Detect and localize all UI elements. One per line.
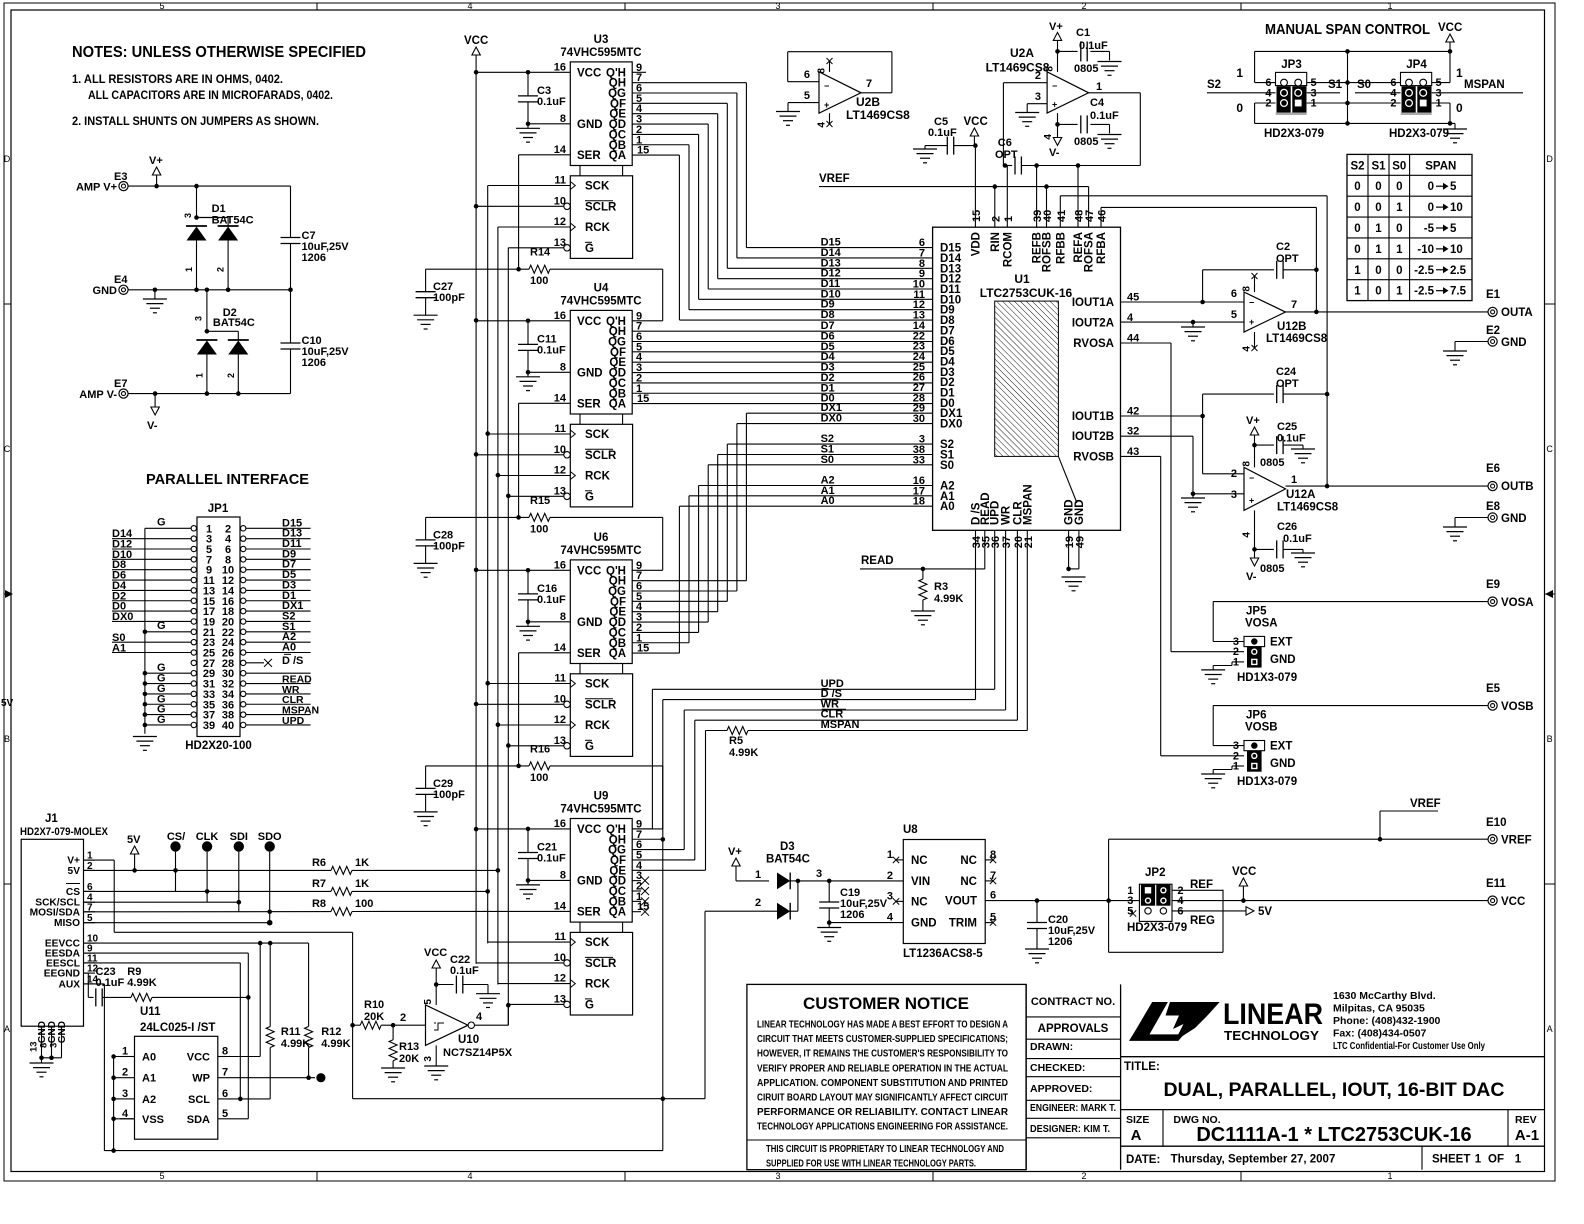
wire READ net — [860, 530, 985, 571]
svg-text:4.99K: 4.99K — [729, 747, 758, 759]
svg-text:0: 0 — [1456, 101, 1463, 115]
svg-text:VCC: VCC — [577, 565, 601, 577]
ground at C5 — [913, 149, 937, 163]
wire JP1 D3 — [246, 579, 311, 591]
svg-text:HD2X20-100: HD2X20-100 — [185, 740, 251, 752]
svg-text:V+: V+ — [149, 155, 163, 167]
svg-text:VCC: VCC — [577, 67, 601, 79]
svg-text:DATE:: DATE: — [1126, 1154, 1160, 1166]
svg-text:SDI: SDI — [230, 831, 248, 843]
svg-text:READ: READ — [861, 555, 894, 567]
wire U3 RCK — [498, 226, 570, 228]
svg-text:G: G — [585, 741, 594, 753]
svg-text:E1: E1 — [1486, 289, 1501, 301]
svg-text:U2B: U2B — [856, 95, 880, 109]
capacitor C4 0.1uF — [1058, 97, 1120, 148]
svg-text:5: 5 — [1231, 309, 1237, 321]
svg-text:U12B: U12B — [1277, 321, 1306, 333]
svg-text:R14: R14 — [530, 247, 551, 259]
svg-text:16: 16 — [554, 310, 566, 322]
ground at U10 — [424, 1066, 448, 1080]
svg-text:4.99K: 4.99K — [127, 977, 156, 989]
svg-text:EEGND: EEGND — [44, 969, 80, 980]
diode D2 BAT54C — [194, 288, 255, 394]
svg-text:THIS CIRCUIT IS PROPRIETARY TO: THIS CIRCUIT IS PROPRIETARY TO LINEAR TE… — [766, 1144, 1004, 1155]
wire U3 SCK — [488, 185, 571, 187]
svg-text:LT1469CS8: LT1469CS8 — [1277, 502, 1339, 514]
wire JP3 pin6 bracket — [1236, 51, 1275, 82]
svg-text:OUTA: OUTA — [1501, 307, 1533, 319]
svg-text:WP: WP — [192, 1073, 210, 1085]
svg-text:5: 5 — [159, 1, 164, 11]
svg-text:0: 0 — [1396, 223, 1402, 235]
resistor R7 1K — [312, 878, 490, 895]
svg-text:SCL: SCL — [188, 1094, 210, 1106]
wire U4 QB to D1 — [632, 382, 932, 394]
svg-text:8: 8 — [560, 869, 566, 881]
svg-text:SCK: SCK — [585, 429, 610, 441]
label REF — [1190, 879, 1213, 891]
svg-text:WR: WR — [1001, 505, 1013, 525]
svg-text:C4: C4 — [1090, 97, 1105, 109]
svg-text:OPT: OPT — [1276, 378, 1299, 390]
wire JP1 D1 — [246, 590, 311, 602]
connector JP1 HD2X20-100 — [191, 503, 246, 737]
svg-text:DC1111A-1 * LTC2753CUK-16: DC1111A-1 * LTC2753CUK-16 — [1196, 1124, 1471, 1146]
wire JP1 D0 — [112, 601, 191, 613]
svg-text:4: 4 — [817, 122, 828, 128]
wire JP1 D5 — [246, 569, 311, 581]
svg-text:J1: J1 — [45, 813, 58, 825]
svg-text:QA: QA — [609, 907, 626, 919]
svg-text:12: 12 — [554, 216, 566, 228]
svg-text:C: C — [1546, 444, 1553, 454]
wire U4 G — [508, 495, 564, 497]
svg-text:AMP V-: AMP V- — [79, 389, 117, 401]
svg-text:VCC: VCC — [1438, 22, 1462, 34]
wire JP1 G row33 — [145, 683, 191, 695]
svg-text:V+: V+ — [1246, 415, 1260, 427]
ground at R13 — [381, 1068, 405, 1082]
svg-text:MSPAN: MSPAN — [1464, 79, 1505, 91]
wire U6 QF to S2 — [632, 433, 932, 601]
svg-text:GND: GND — [1501, 337, 1527, 349]
svg-text:1206: 1206 — [840, 909, 864, 921]
capacitor C6 OPT — [995, 137, 1140, 175]
wire U6 QA to A0 — [632, 495, 932, 653]
wire JP1 G row31 — [145, 673, 191, 685]
svg-text:LINEAR: LINEAR — [1223, 998, 1323, 1031]
svg-text:A2: A2 — [142, 1094, 156, 1106]
capacitor C29 100pF — [416, 766, 465, 812]
svg-text:JP6: JP6 — [1246, 710, 1266, 722]
terminal E8 GND — [1455, 501, 1527, 525]
svg-text:0: 0 — [1236, 101, 1243, 115]
svg-text:0.1uF: 0.1uF — [537, 96, 566, 108]
svg-text:CIRCUIT THAT MEETS CUSTOMER-SU: CIRCUIT THAT MEETS CUSTOMER-SUPPLIED SPE… — [757, 1034, 1008, 1045]
svg-text:0805: 0805 — [1260, 457, 1284, 469]
wire RCK bus vertical — [496, 227, 501, 985]
svg-text:−: − — [1249, 298, 1254, 308]
wire ROFSB — [1046, 187, 1048, 228]
label REG — [1190, 915, 1215, 927]
svg-text:7: 7 — [990, 870, 996, 882]
svg-text:R16: R16 — [530, 743, 550, 755]
wire U10 Vcc pin5 — [423, 985, 436, 1006]
svg-text:IOUT2B: IOUT2B — [1072, 431, 1114, 443]
svg-text:CHECKED:: CHECKED: — [1030, 1062, 1085, 1074]
svg-text:4: 4 — [467, 1171, 472, 1181]
wire JP1 row40 — [246, 724, 311, 726]
ground at U6 — [516, 622, 540, 640]
ground at span control — [1443, 123, 1467, 142]
svg-text:0: 0 — [1354, 181, 1360, 193]
svg-text:3: 3 — [183, 213, 193, 218]
svg-text:JP4: JP4 — [1406, 59, 1427, 71]
svg-text:3: 3 — [887, 890, 893, 902]
svg-text:14: 14 — [554, 144, 567, 156]
svg-text:HOWEVER, IT REMAINS THE CUSTOM: HOWEVER, IT REMAINS THE CUSTOMER'S RESPO… — [757, 1049, 1008, 1060]
svg-text:−: − — [1052, 81, 1057, 91]
svg-text:100pF: 100pF — [433, 540, 465, 552]
svg-text:JP1: JP1 — [208, 503, 229, 515]
svg-text:VOSA: VOSA — [1501, 597, 1534, 609]
svg-text:+: + — [1052, 100, 1057, 110]
wire REFA — [1077, 166, 1079, 228]
svg-text:RFBA: RFBA — [1096, 232, 1108, 264]
svg-text:SCLR: SCLR — [585, 201, 617, 213]
svg-text:U3: U3 — [594, 34, 609, 46]
svg-text:5V: 5V — [1, 698, 14, 709]
svg-text:39: 39 — [203, 720, 215, 732]
wire J1 V+ to D3 — [84, 860, 706, 1101]
svg-text:SER: SER — [577, 150, 601, 162]
wire C19 to U8 GND — [829, 922, 903, 924]
svg-text:HD2X7-079-MOLEX: HD2X7-079-MOLEX — [20, 826, 109, 838]
svg-text:5: 5 — [804, 90, 810, 102]
svg-text:LINEAR TECHNOLOGY HAS MADE A B: LINEAR TECHNOLOGY HAS MADE A BEST EFFORT… — [757, 1020, 1008, 1031]
wire U4 QA to D0 — [632, 393, 932, 405]
wire IOUT2A to U12B +in — [1121, 320, 1245, 325]
svg-text:0.1uF: 0.1uF — [96, 977, 125, 989]
svg-text:SCLR: SCLR — [585, 958, 617, 970]
wire SER link — [516, 155, 570, 272]
company address — [1333, 990, 1485, 1052]
svg-text:-2.5: -2.5 — [1414, 265, 1434, 277]
terminal E6 OUTB — [1486, 463, 1534, 493]
svg-text:10: 10 — [1450, 244, 1463, 256]
svg-text:A0: A0 — [282, 642, 296, 654]
wire U6 GND — [528, 621, 570, 623]
svg-text:1K: 1K — [355, 857, 369, 869]
ground at R3 — [911, 611, 935, 625]
jumper JP2 HD2X3-079 — [1127, 867, 1187, 934]
power flag VCC at VDD — [964, 116, 988, 146]
no-connect U9 unused outputs — [632, 877, 649, 916]
svg-text:VOSB: VOSB — [1245, 722, 1278, 734]
svg-text:BAT54C: BAT54C — [766, 854, 810, 866]
svg-text:1: 1 — [1396, 202, 1403, 214]
wire JP1 D10 — [112, 549, 191, 561]
svg-text:100: 100 — [530, 275, 548, 287]
ground at C28 — [414, 563, 438, 577]
wire JP3 pin2 bracket — [1236, 101, 1275, 123]
svg-text:R3: R3 — [934, 581, 948, 593]
wire JP1 S0 — [112, 632, 191, 644]
capacitor C16 0.1uF — [518, 570, 566, 624]
svg-text:LT1236ACS8-5: LT1236ACS8-5 — [903, 948, 983, 960]
svg-text:3: 3 — [122, 1088, 128, 1100]
svg-text:ENGINEER: MARK T.: ENGINEER: MARK T. — [1030, 1102, 1116, 1114]
svg-text:8: 8 — [222, 1046, 228, 1058]
wire U3 QE to D12 — [632, 114, 932, 280]
wire U3 QA to D8 — [632, 155, 932, 321]
wire JP1 D11 — [246, 538, 311, 550]
wire SER link — [516, 653, 570, 768]
svg-text:74VHC595MTC: 74VHC595MTC — [560, 804, 641, 816]
svg-text:CLK: CLK — [196, 831, 219, 843]
wire U9 GND — [528, 879, 570, 881]
svg-text:RCK: RCK — [585, 720, 611, 732]
svg-text:REF: REF — [1190, 879, 1213, 891]
svg-text:D: D — [4, 154, 11, 164]
svg-text:21: 21 — [1023, 536, 1035, 548]
svg-text:1: 1 — [122, 1046, 128, 1058]
no-connect JP1 pin28 D/S — [246, 654, 304, 667]
svg-text:5: 5 — [222, 1108, 228, 1120]
svg-text:IOUT1A: IOUT1A — [1072, 297, 1114, 309]
svg-text:VOSA: VOSA — [1245, 617, 1278, 629]
testpoint SDO — [258, 831, 282, 926]
svg-text:7: 7 — [866, 78, 872, 90]
capacitor C21 0.1uF — [518, 829, 566, 883]
svg-text:V+: V+ — [728, 846, 742, 858]
svg-text:11: 11 — [554, 423, 566, 435]
svg-text:0805: 0805 — [1260, 563, 1284, 575]
wire U3 SCLR — [476, 205, 564, 207]
ground at U2A +in — [1015, 113, 1039, 127]
capacitor C11 0.1uF — [518, 321, 566, 375]
svg-text:1: 1 — [1387, 1171, 1392, 1181]
svg-text:S0: S0 — [940, 460, 954, 472]
svg-text:V-: V- — [1246, 571, 1257, 583]
wire JP1 D2 — [112, 590, 191, 602]
svg-text:1: 1 — [1354, 265, 1361, 277]
svg-text:C6: C6 — [998, 137, 1012, 149]
svg-text:1206: 1206 — [302, 357, 326, 369]
wire D3 to U8 VIN — [798, 868, 903, 883]
svg-text:−: − — [824, 81, 829, 91]
wire JP1 A2 — [246, 631, 311, 643]
svg-text:APPROVED:: APPROVED: — [1030, 1083, 1092, 1095]
svg-text:16: 16 — [554, 559, 566, 571]
svg-text:A: A — [4, 1024, 10, 1034]
wire U1 GND pins — [1066, 530, 1079, 571]
svg-text:SHEET: SHEET — [1432, 1154, 1470, 1166]
wire U3 QF to D13 — [632, 103, 932, 269]
svg-text:7: 7 — [1291, 299, 1297, 311]
svg-text:GND: GND — [911, 918, 937, 930]
svg-text:0.1uF: 0.1uF — [1090, 110, 1119, 122]
wire JP2 pin6 to 5V — [1172, 906, 1272, 918]
wire U3 QH to D15 — [632, 83, 932, 249]
svg-text:0: 0 — [1375, 286, 1381, 298]
power flag V+ at D3 — [728, 846, 769, 881]
svg-text:1: 1 — [1003, 216, 1015, 222]
power flag VCC at U10 — [424, 947, 447, 987]
svg-text:6: 6 — [990, 890, 996, 902]
wire U9 SCK — [488, 941, 571, 943]
svg-text:4: 4 — [476, 1011, 483, 1023]
ground at C19 — [817, 923, 841, 942]
capacitor C7 — [281, 186, 350, 290]
ic U8 LT1236ACS8-5 — [887, 824, 996, 960]
op-amp U12A LT1469CS8 — [1231, 467, 1339, 513]
wire JP1 D14 — [112, 528, 191, 540]
svg-text:B: B — [4, 734, 10, 744]
terminal E7 AMP V- — [79, 378, 155, 401]
svg-text:0805: 0805 — [1074, 136, 1098, 148]
svg-text:A0: A0 — [142, 1052, 156, 1064]
power flag VCC at span control — [1438, 22, 1462, 51]
wire E3 row — [157, 185, 291, 187]
wire U4 QF to D5 — [632, 341, 932, 353]
wire U4 SCK — [488, 433, 571, 435]
svg-text:2: 2 — [226, 373, 236, 378]
svg-text:RCOM: RCOM — [1002, 232, 1014, 267]
jumper JP6 VOSB HD1X3-079 — [1233, 710, 1297, 789]
wire U4 QE to D4 — [632, 351, 932, 363]
svg-text:1: 1 — [887, 849, 893, 861]
svg-text:74VHC595MTC: 74VHC595MTC — [560, 295, 641, 307]
svg-text:5: 5 — [159, 1171, 164, 1181]
resistor R9 4.99K — [102, 966, 251, 1001]
svg-text:R11: R11 — [281, 1026, 301, 1038]
power flag V+ at U2A — [1049, 21, 1063, 54]
svg-text:0: 0 — [1354, 244, 1360, 256]
wire U3 QG to D14 — [632, 93, 932, 259]
svg-text:GND: GND — [1074, 499, 1086, 525]
power flag V+ at U12A — [1246, 415, 1260, 445]
svg-text:5V: 5V — [127, 834, 141, 846]
svg-text:A0: A0 — [821, 495, 835, 507]
wire U6 QG to DX0 — [632, 413, 932, 591]
svg-text:TITLE:: TITLE: — [1124, 1061, 1160, 1073]
wire JP1 DX0 — [112, 611, 191, 623]
svg-text:SCLR: SCLR — [585, 699, 617, 711]
resistor R14 100 — [426, 247, 663, 321]
wire U2A output — [1089, 93, 1141, 166]
wire JP1 row1 G to ground bus — [145, 517, 191, 529]
svg-text:GND: GND — [1270, 758, 1296, 770]
svg-text:V-: V- — [147, 420, 158, 432]
inverter U10 NC7SZ14P5X — [400, 1005, 513, 1059]
svg-text:1: 1 — [1375, 244, 1382, 256]
svg-text:20K: 20K — [399, 1053, 419, 1065]
wire OUTB — [1286, 484, 1488, 489]
terminal E1 OUTA — [1486, 289, 1533, 319]
wire U9 G — [508, 1003, 564, 1005]
capacitor C1 0.1uF — [0, 0, 1, 1]
wire E7 row — [155, 391, 290, 396]
wire RFBB feedback to OUTB — [1060, 196, 1327, 486]
wire U6 SCK — [488, 683, 571, 685]
svg-text:4: 4 — [887, 912, 894, 924]
testpoint CS/ — [167, 831, 185, 891]
ground at E4 — [143, 288, 167, 313]
svg-text:RVOSA: RVOSA — [1073, 338, 1114, 350]
svg-text:OUTB: OUTB — [1501, 481, 1534, 493]
wire G bus vertical — [506, 248, 511, 1025]
wire U3 VCC — [476, 70, 570, 75]
power flag V- at U12A — [1246, 549, 1259, 583]
wire REF loop — [1106, 839, 1223, 952]
svg-text:SER: SER — [577, 648, 601, 660]
wire U6 Q'H link — [0, 0, 1, 1]
wire EESCL row — [84, 963, 243, 1101]
svg-text:S0: S0 — [1357, 79, 1371, 91]
resistor R11 4.99K — [266, 943, 310, 1099]
svg-text:REG: REG — [1190, 915, 1215, 927]
svg-text:GND: GND — [1501, 513, 1527, 525]
svg-text:11: 11 — [554, 673, 566, 685]
svg-text:A: A — [1131, 1127, 1142, 1144]
svg-text:CS: CS — [66, 887, 80, 898]
wire U3 QB to D9 — [632, 145, 932, 311]
jumper JP3 HD2X3-079 — [1264, 59, 1324, 140]
svg-text:APPROVALS: APPROVALS — [1038, 1023, 1109, 1035]
svg-text:AUX: AUX — [58, 979, 80, 990]
svg-text:VCC: VCC — [1501, 896, 1525, 908]
svg-text:7: 7 — [222, 1067, 228, 1079]
svg-text:12: 12 — [554, 465, 566, 477]
svg-text:74VHC595MTC: 74VHC595MTC — [560, 545, 641, 557]
svg-text:100pF: 100pF — [433, 789, 465, 801]
svg-text:ALL CAPACITORS ARE IN MICROFAR: ALL CAPACITORS ARE IN MICROFARADS, 0402. — [88, 88, 333, 102]
svg-text:-2.5: -2.5 — [1414, 286, 1434, 298]
power flag V+ (top) — [149, 155, 163, 188]
svg-text:5: 5 — [990, 912, 996, 924]
wire SCK/SCL row — [84, 901, 239, 903]
wire EEGND row to C23 — [84, 973, 94, 997]
svg-text:E9: E9 — [1486, 579, 1500, 591]
wire U4 VCC — [476, 319, 570, 324]
svg-text:49: 49 — [1074, 536, 1086, 548]
svg-text:3: 3 — [816, 868, 822, 880]
svg-text:SDO: SDO — [258, 831, 282, 843]
svg-text:4.99K: 4.99K — [321, 1038, 350, 1050]
svg-text:C24: C24 — [1276, 366, 1297, 378]
resistor R16 100 — [426, 743, 663, 829]
ground at C1 — [1098, 62, 1122, 76]
svg-text:U11: U11 — [140, 1006, 161, 1018]
wire span control center link — [1307, 51, 1401, 123]
svg-text:4: 4 — [1242, 532, 1253, 538]
svg-text:NC: NC — [911, 896, 928, 908]
svg-text:VOUT: VOUT — [945, 896, 977, 908]
ground at C25 — [1291, 449, 1315, 463]
svg-text:LTC2753CUK-16: LTC2753CUK-16 — [980, 286, 1073, 300]
svg-text:8: 8 — [560, 361, 566, 373]
svg-text:0.1uF: 0.1uF — [1277, 433, 1306, 445]
svg-text:11: 11 — [554, 931, 566, 943]
wire JP1 D13 — [246, 528, 311, 540]
svg-text:8: 8 — [1242, 286, 1253, 292]
table span codes — [1347, 154, 1472, 300]
svg-text:LT1469CS8: LT1469CS8 — [1266, 333, 1328, 345]
title block title row — [1121, 1057, 1545, 1101]
svg-text:8: 8 — [560, 113, 566, 125]
